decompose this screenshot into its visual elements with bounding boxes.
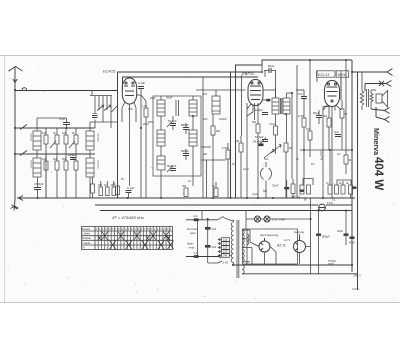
tap box 240 (222, 254, 230, 258)
svg-text:1 A: 1 A (194, 214, 198, 218)
svg-text:S16/S19: S16/S19 (97, 160, 99, 169)
mains line 1 (186, 219, 218, 221)
T2 core (367, 89, 369, 107)
svg-text:Bereich: Bereich (82, 228, 91, 231)
svg-text:40µF: 40µF (349, 241, 355, 245)
selector tap arrowheads (218, 238, 220, 256)
resistor R3 (62, 128, 68, 154)
resistor R19 (252, 103, 260, 198)
bracket right (337, 180, 351, 185)
T1 secondary 1 (242, 230, 244, 248)
coupling caps (92, 114, 98, 118)
svg-text:5nF: 5nF (264, 158, 269, 161)
resistor R18 (113, 183, 120, 195)
resistor R21 (236, 136, 244, 198)
svg-text:1M: 1M (306, 128, 309, 131)
switch S2 (15, 125, 29, 130)
right rail 2 (357, 72, 359, 290)
svg-text:Minerva: Minerva (372, 128, 381, 156)
svg-text:netz: netz (189, 245, 195, 249)
svg-text:0,3M: 0,3M (298, 115, 304, 118)
wire vertical x203 (202, 77, 204, 198)
capacitor C20 (205, 245, 217, 249)
svg-text:Heizung: Heizung (294, 230, 304, 234)
coupling subcircuit rail (90, 95, 112, 97)
svg-text:S12/S72: S12/S72 (30, 160, 32, 169)
svg-text:5000pF: 5000pF (167, 164, 177, 168)
svg-text:0,1µF: 0,1µF (252, 193, 259, 196)
wire verticals B (247, 65, 297, 198)
capacitor C21 electrolytic (316, 211, 330, 274)
core lines 2 (281, 98, 282, 114)
trimmer T2 (69, 141, 75, 148)
label Spar netz (187, 242, 195, 250)
capacitor C3 (34, 177, 44, 198)
mains line 2 (186, 255, 221, 257)
power switch S4 (218, 216, 232, 220)
capacitor C2 (68, 153, 76, 160)
box B left (236, 65, 263, 198)
top rail right (262, 60, 352, 65)
potentiometer P1 (271, 141, 281, 154)
svg-text:0,1µF 6k: 0,1µF 6k (320, 150, 324, 161)
svg-text:1M: 1M (289, 147, 292, 150)
capacitor C5 (167, 119, 177, 127)
label WH4 box (336, 71, 349, 77)
svg-text:50pF: 50pF (268, 64, 275, 68)
capacitor C18 (334, 130, 341, 137)
capacitor C7 (181, 123, 189, 130)
svg-text:1M: 1M (62, 131, 66, 135)
T2 secondary (370, 93, 373, 102)
svg-text:4,2 V: 4,2 V (284, 238, 290, 242)
page bottom edge (0, 302, 400, 304)
table frame (82, 227, 173, 250)
svg-text:20pF: 20pF (150, 97, 156, 100)
svg-text:240 V: 240 V (354, 274, 361, 278)
capacitor C26 (300, 190, 304, 192)
plug J1 (387, 69, 393, 76)
ground (11, 198, 19, 211)
resistor R11 (104, 181, 109, 196)
capacitor C16 (296, 90, 307, 104)
svg-text:S11/S13: S11/S13 (30, 133, 32, 142)
resistor R23 (291, 179, 296, 199)
resistor R16 (182, 185, 188, 197)
coil L2 (33, 158, 41, 177)
resistor R28 (344, 155, 352, 174)
coupling switch arrows (97, 105, 117, 112)
svg-text:Sperrspannung: Sperrspannung (260, 233, 279, 237)
svg-text:S15/S18: S15/S18 (97, 133, 99, 142)
svg-text:1nF: 1nF (298, 92, 303, 96)
T1 core (237, 220, 239, 278)
resistor R31 (326, 150, 332, 194)
svg-text:300: 300 (182, 185, 187, 188)
svg-text:AZ 11: AZ 11 (276, 244, 286, 248)
wire V1 pin leads (122, 102, 136, 122)
wire secondary taps (242, 230, 352, 274)
trimmer T1 (50, 141, 56, 148)
svg-text:0,1: 0,1 (188, 180, 192, 183)
coil L9 (157, 156, 165, 170)
wires rectifier (250, 230, 311, 264)
bracket left (303, 179, 313, 186)
wire V2 pin leads (242, 75, 254, 136)
capacitor C15 (272, 180, 289, 198)
svg-text:1M: 1M (42, 157, 46, 161)
svg-text:0,1M: 0,1M (269, 123, 275, 126)
rectifier box (243, 229, 298, 264)
screen rail (123, 77, 259, 90)
svg-text:580pF: 580pF (181, 123, 189, 127)
svg-text:1µF: 1µF (334, 130, 339, 134)
svg-text:K-Welle: K-Welle (82, 242, 91, 245)
wires IF can 1 (161, 96, 193, 198)
svg-text:ZF = 473/483 kHz: ZF = 473/483 kHz (111, 215, 144, 220)
resistor R14 (211, 114, 221, 198)
T1 secondary 2 (242, 249, 244, 262)
resistor R17 (212, 182, 218, 197)
svg-text:WH4: WH4 (338, 73, 346, 77)
page left edge (4, 56, 6, 303)
speaker LS1 (371, 90, 388, 109)
capacitor C17 electrolytic (313, 110, 322, 124)
tap box 110 (222, 238, 230, 242)
right rail 1 (351, 60, 353, 272)
svg-text:EBF11: EBF11 (242, 71, 254, 76)
label TF160 (328, 259, 336, 266)
voltage selector taps (208, 240, 222, 264)
svg-text:100pF: 100pF (219, 117, 227, 121)
table X marks (98, 231, 174, 249)
svg-text:1 A: 1 A (194, 251, 198, 255)
coil L6 (189, 100, 197, 116)
svg-text:0,1µF: 0,1µF (138, 81, 145, 85)
svg-text:33nF: 33nF (272, 184, 279, 188)
capacitor C24 (253, 140, 264, 147)
svg-text:2nF: 2nF (212, 227, 217, 231)
capacitor C19 (205, 227, 217, 231)
coil L1 (33, 131, 41, 150)
resistor R26 (323, 107, 331, 151)
capacitor C6 (181, 149, 189, 156)
capacitor C1 (59, 117, 70, 128)
svg-text:0,2: 0,2 (311, 163, 315, 166)
svg-text:0,37- 0,4A: 0,37- 0,4A (272, 218, 285, 222)
page top edge (0, 55, 400, 57)
resistor R34 (346, 182, 353, 198)
svg-text:0,3M: 0,3M (222, 147, 228, 150)
bottom rail (233, 264, 352, 266)
resistor R33 (339, 181, 345, 194)
IF can 1 box (153, 96, 201, 176)
svg-text:0,1M: 0,1M (243, 168, 249, 171)
supply bus (100, 210, 352, 212)
svg-text:0,1: 0,1 (337, 153, 341, 156)
wire top coupling (196, 90, 246, 96)
fuse F3 (194, 251, 200, 258)
svg-text:54,6pF: 54,6pF (255, 135, 264, 139)
wire V1 cathode (129, 104, 131, 186)
capacitor C4 (137, 81, 145, 89)
svg-text:100pF: 100pF (255, 108, 263, 112)
svg-text:404 W: 404 W (372, 157, 384, 190)
svg-text:4700pF: 4700pF (34, 182, 44, 186)
capacitor C11 (126, 186, 135, 198)
wire T1 primary ends (230, 220, 234, 265)
svg-text:0,1µF: 0,1µF (127, 186, 134, 190)
svg-text:150: 150 (223, 246, 228, 250)
svg-text:TA: TA (82, 246, 85, 249)
resistor R6 (53, 154, 59, 198)
wire mains left (202, 211, 208, 264)
svg-text:1M: 1M (53, 157, 57, 161)
svg-text:125: 125 (223, 242, 228, 246)
resistor R20 (269, 120, 278, 141)
heater bus b (326, 204, 352, 206)
capacitor C9 (166, 96, 173, 100)
IF can 2 coil Lb (283, 98, 290, 114)
output transformer T2 primary (360, 91, 364, 106)
svg-text:50k: 50k (62, 157, 67, 161)
svg-text:0,1: 0,1 (332, 199, 336, 202)
band rail 1 (29, 127, 95, 129)
resistor R30 (304, 185, 311, 202)
resistor R12 (111, 181, 116, 196)
capacitor C27 (352, 187, 356, 189)
winding W2 (294, 237, 306, 253)
svg-text:7R/S: 7R/S (328, 262, 334, 266)
svg-text:T0,8: T0,8 (327, 201, 333, 205)
svg-text:netz: netz (190, 231, 196, 235)
wire links mid (136, 95, 226, 160)
svg-text:470: 470 (203, 93, 208, 96)
tube V1 ECH21 (122, 78, 136, 104)
label ECL11 box (317, 71, 336, 77)
wire T2 top (361, 72, 363, 110)
capacitor C10 (219, 117, 227, 121)
wire coil drops (37, 118, 117, 198)
resistor R13 (142, 101, 148, 198)
switch S3 (15, 151, 28, 156)
tube V2 EBF11 (248, 80, 263, 106)
resistor R2 (53, 128, 59, 154)
fuse F1 (319, 204, 326, 211)
capacitor C23 (349, 237, 355, 273)
lamp row wire (246, 211, 311, 230)
label Normal netz (187, 227, 197, 235)
coil L3 (86, 131, 94, 150)
svg-text:2 40: 2 40 (223, 261, 229, 265)
svg-text:1M: 1M (236, 140, 239, 143)
transformer T1 primary (231, 222, 233, 263)
svg-text:40µF: 40µF (337, 229, 343, 233)
heater winding column (247, 229, 249, 264)
capacitor C8 (167, 164, 177, 172)
resistor R5 (42, 154, 48, 198)
resistor R25 (306, 124, 312, 150)
bus start arrow (19, 196, 24, 201)
svg-text:20pF: 20pF (143, 123, 149, 126)
capacitor C12 (264, 64, 276, 98)
capacitor C25 (263, 99, 270, 102)
resistor R9 (91, 177, 95, 198)
svg-text:0,1: 0,1 (297, 196, 301, 199)
tap box 150 (222, 246, 230, 250)
tap box 125 (222, 242, 230, 246)
svg-text:240: 240 (223, 254, 228, 258)
svg-text:NSF: NSF (291, 196, 296, 199)
svg-text:1,5k: 1,5k (142, 105, 147, 108)
wire mains cross (197, 220, 199, 257)
coil L10 (212, 96, 220, 114)
wire antenna feed (15, 90, 117, 92)
svg-text:580pF: 580pF (181, 149, 189, 153)
svg-text:220: 220 (223, 250, 228, 254)
wire box A right (230, 72, 232, 198)
resistor R24 (298, 104, 306, 185)
resistor R8 (72, 154, 78, 198)
T1 secondary 3 (242, 265, 244, 274)
antenna A1 (9, 66, 23, 198)
resistor R22 (284, 143, 292, 198)
coil L5 (157, 100, 165, 116)
table column lines (98, 227, 169, 250)
svg-text:1,5k: 1,5k (128, 108, 133, 111)
coil L8 (189, 130, 197, 146)
coil L4 (86, 158, 94, 177)
wire grid (141, 89, 146, 199)
resistor R32 (332, 185, 339, 202)
lamp LA1 (255, 216, 261, 222)
wire tube to coil (263, 88, 292, 143)
fuse F2 (194, 214, 200, 221)
tap box 220 (222, 250, 230, 254)
resistor R10 (98, 181, 103, 196)
svg-text:ECH21: ECH21 (103, 69, 116, 74)
wire V3 pin leads (317, 77, 341, 198)
plug J4 (376, 107, 390, 123)
winding W1 (259, 238, 270, 252)
plate rail top (118, 72, 264, 198)
resistor R29 (297, 185, 304, 199)
svg-text:L-Welle: L-Welle (82, 233, 91, 236)
plug J2 (365, 81, 392, 92)
ground bus (17, 197, 355, 199)
bottom rail 2 (242, 273, 358, 275)
table header digits (95, 227, 171, 231)
svg-text:ECL11: ECL11 (318, 73, 329, 77)
coupling verticals (92, 91, 111, 129)
svg-text:500µF: 500µF (322, 235, 330, 239)
capacitor C14 (255, 135, 268, 144)
capacitor C22 (337, 211, 349, 246)
jack arcs (260, 162, 271, 198)
svg-text:220V~: 220V~ (352, 287, 361, 291)
scan speckles (8, 61, 396, 300)
IF can 2 coil La (272, 98, 279, 114)
resistor R1 (42, 128, 48, 198)
wire vertical x206.5 (206, 160, 208, 198)
svg-text:M-Welle: M-Welle (82, 237, 91, 240)
wire bottom verticals (292, 198, 311, 274)
table row labels (82, 228, 91, 250)
plug J3 (371, 108, 390, 114)
resistor R4 (72, 128, 78, 154)
wire links C (300, 60, 352, 198)
coil L7 (157, 130, 165, 146)
svg-text:2nF: 2nF (212, 245, 217, 249)
svg-text:180pF: 180pF (68, 153, 76, 157)
wire top speaker feed (352, 71, 387, 73)
capacitor C13 (255, 108, 268, 115)
band rail 2 (28, 153, 95, 155)
svg-text:54,6pF: 54,6pF (253, 140, 262, 144)
svg-text:1M: 1M (42, 131, 46, 135)
resistor R7 (62, 154, 68, 198)
trimmer arrow T3 (264, 149, 274, 158)
core lines (176, 100, 179, 116)
switch S1 (22, 88, 27, 90)
resistor R27 (340, 100, 348, 150)
resistor R15 (222, 143, 230, 198)
svg-text:20pF: 20pF (166, 96, 173, 100)
tube V3 ECL11 (325, 81, 340, 107)
heater bus (95, 204, 318, 206)
page scan area tint (0, 56, 400, 303)
lamp LA2 (264, 216, 270, 222)
svg-text:S16: S16 (203, 118, 208, 121)
svg-text:110: 110 (223, 238, 228, 242)
